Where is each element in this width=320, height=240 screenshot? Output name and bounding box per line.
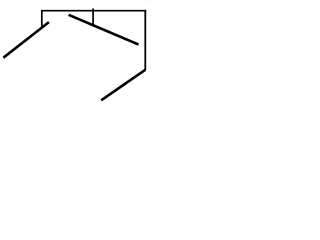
node A (92, 8, 94, 24)
node B (148, 0, 150, 2)
switch SW2 lever (69, 15, 139, 45)
wire (41, 10, 146, 12)
switch SW3 lever (101, 70, 145, 101)
wire (41, 10, 43, 28)
wire (144, 10, 146, 70)
switch SW1 lever (3, 22, 49, 58)
